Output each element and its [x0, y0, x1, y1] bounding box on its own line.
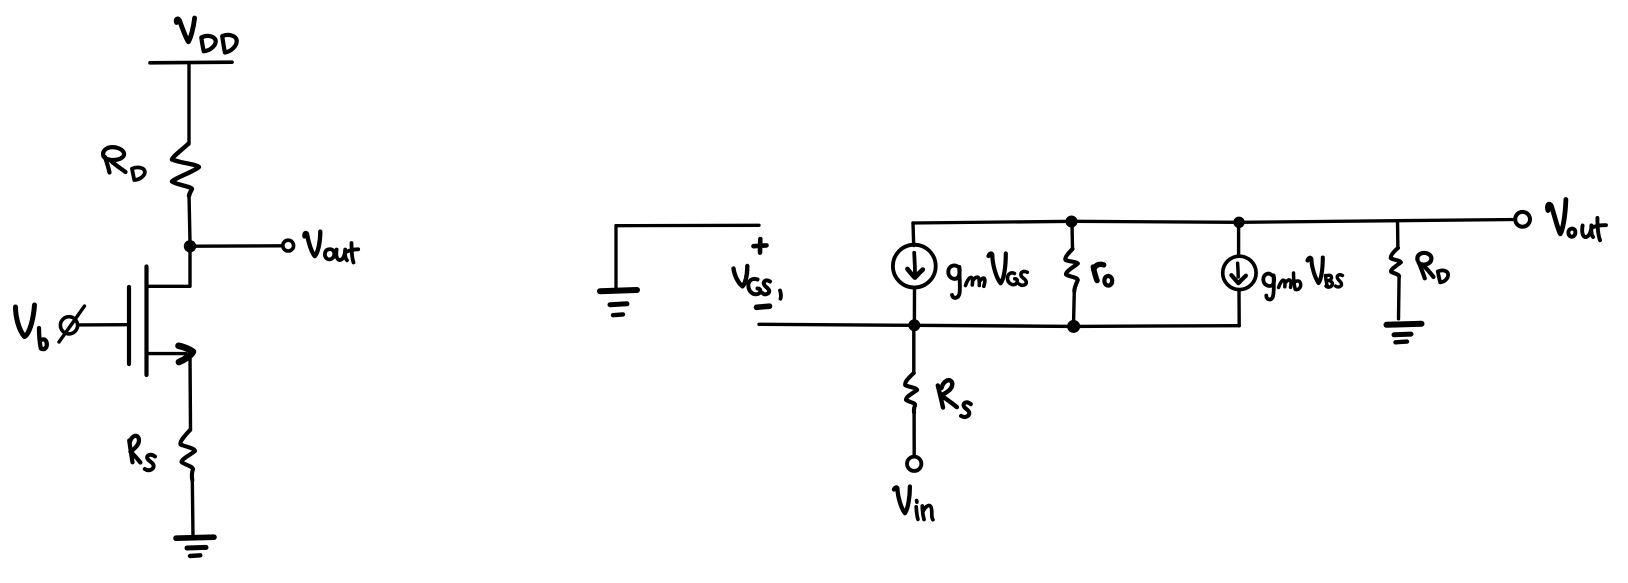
- wire RS to Vin terminal: [912, 413, 916, 457]
- wire gmb to bottom rail: [1237, 290, 1241, 326]
- label VDD: [176, 18, 236, 53]
- label Vout (right): [1547, 200, 1606, 241]
- current source gm (circle): [893, 245, 936, 288]
- terminal Vout (open circle): [283, 240, 294, 251]
- wire top rail to RD: [1396, 221, 1400, 248]
- wire node to drain of M1: [148, 252, 191, 286]
- ground (gate): [600, 290, 637, 291]
- label gmb VBS: [1263, 258, 1342, 300]
- transistor M1 channel bar: [144, 267, 148, 376]
- wire source rail (middle): [759, 324, 1074, 326]
- resistor RD: [172, 144, 199, 196]
- terminal Vout (right, open circle): [1515, 212, 1530, 227]
- wire RD to output node: [189, 194, 190, 242]
- transistor M1 gate lead: [79, 323, 130, 327]
- current source gmb (circle): [1223, 256, 1256, 289]
- wire VDD to RD: [187, 64, 190, 144]
- resistor ro: [1065, 249, 1077, 291]
- label Vout: [304, 232, 358, 263]
- wire gate to ground (top left): [616, 224, 759, 228]
- current source gmb arrow: [1236, 263, 1240, 277]
- wire to gmb source: [1237, 223, 1240, 256]
- node dot ro top: [1066, 216, 1078, 228]
- current source gm arrow: [912, 253, 917, 274]
- wire node to Vout terminal: [196, 244, 282, 248]
- transistor M1 gate bar: [127, 287, 131, 364]
- terminal Vin (open circle): [907, 457, 921, 471]
- label Vb: [16, 305, 47, 349]
- label RD (right): [1417, 253, 1448, 282]
- resistor RD (right): [1391, 248, 1401, 276]
- wire top rail: [913, 220, 1516, 224]
- terminal Vb (phi symbol: circle with slash): [60, 317, 77, 334]
- wire bottom of gmb branch: [1074, 324, 1239, 328]
- minus sign: [757, 306, 770, 307]
- label ro: [1093, 264, 1112, 285]
- node dot (source node): [908, 319, 920, 331]
- VDD supply rail: [150, 60, 232, 64]
- wire gm source to node: [913, 288, 916, 322]
- node dot ro bottom: [1067, 320, 1080, 333]
- resistor RS (right): [905, 373, 917, 413]
- wire top rail to gm source: [911, 223, 915, 246]
- ground (left circuit): [176, 537, 214, 538]
- label Vin: [894, 487, 933, 520]
- label VGS1: [734, 266, 781, 299]
- wire to ro: [1070, 223, 1074, 249]
- wire node to RS (right): [912, 331, 915, 373]
- plus sign: [754, 239, 767, 253]
- resistor RS: [180, 430, 195, 480]
- wire source to RS: [188, 354, 192, 430]
- ground (RD): [1387, 324, 1422, 325]
- wire RD to ground: [1397, 276, 1401, 319]
- label RD: [103, 147, 145, 180]
- label gm VGS: [948, 253, 1027, 297]
- wire RS to ground: [191, 480, 195, 536]
- wire ro to bottom node: [1072, 291, 1076, 321]
- transistor M1 source lead with arrow: [148, 352, 187, 355]
- label RS (right): [938, 380, 971, 417]
- node dot gmb top: [1233, 217, 1244, 228]
- node Vout (junction dot): [184, 240, 196, 252]
- label RS: [129, 436, 155, 470]
